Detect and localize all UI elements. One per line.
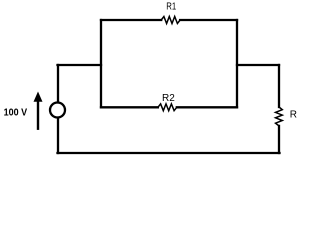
svg-text:R1: R1 [166, 2, 176, 13]
svg-text:100 V: 100 V [4, 108, 28, 119]
svg-text:R2: R2 [162, 93, 175, 104]
svg-text:R: R [290, 110, 297, 121]
